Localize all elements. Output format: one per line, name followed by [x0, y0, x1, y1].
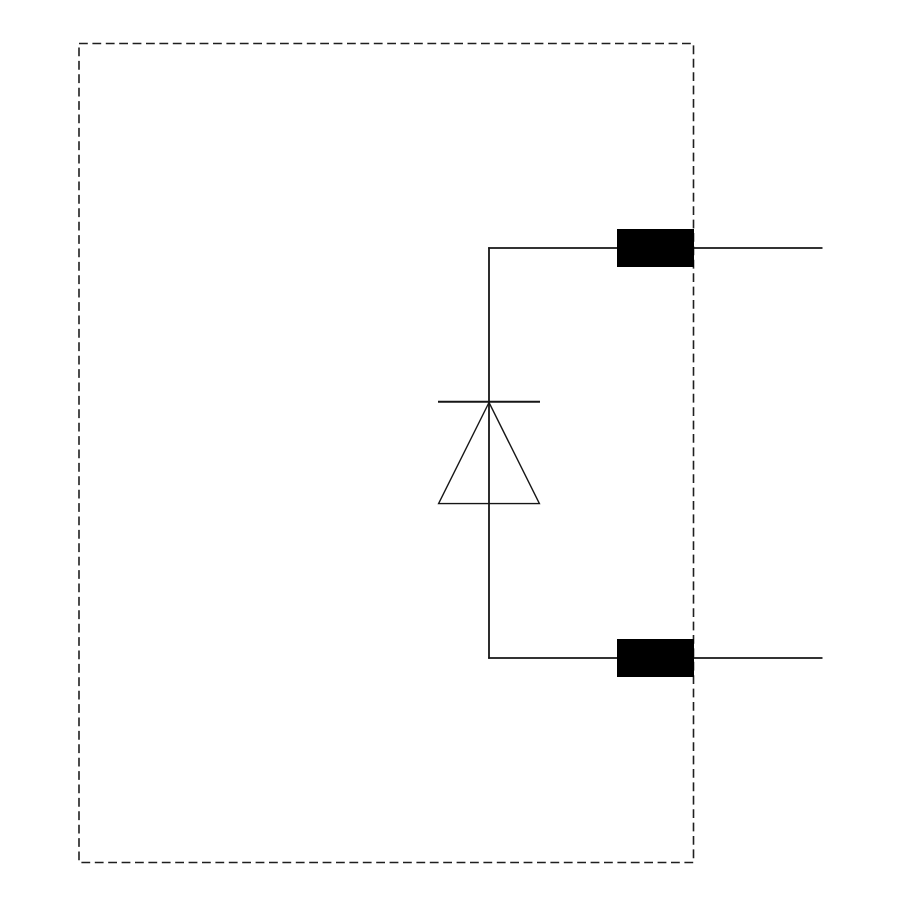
terminal pad P1 (top, on boundary) — [617, 229, 694, 267]
wire: bottom horizontal from node B to right lead — [488, 657, 822, 659]
wire: top horizontal from node A to right lead — [488, 247, 822, 249]
diode D1 cathode bar — [438, 401, 540, 403]
terminal pad P2 (bottom, on boundary) — [617, 639, 694, 677]
wire: vertical from node A down through diode to node B — [488, 247, 490, 659]
dashed subcircuit boundary box — [79, 44, 694, 863]
diode D1 anode triangle (pointing up) — [439, 403, 540, 504]
